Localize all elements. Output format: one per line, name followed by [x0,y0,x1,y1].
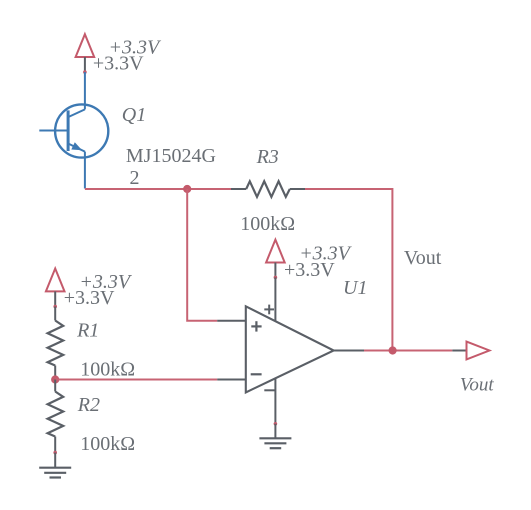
svg-text:Q1: Q1 [122,104,146,126]
wire junction to op-amp minus input [55,379,217,381]
svg-text:+3.3V: +3.3V [64,287,115,309]
wire junction to op-amp plus input [187,189,217,321]
ground GND1 below R2 [39,453,71,478]
op-amp plus input sign [251,321,261,331]
transistor Q1 [39,104,108,188]
svg-text:U1: U1 [343,277,367,299]
wire emitter to R3 [85,188,231,190]
power +3.3V VCC1 symbol [76,34,95,74]
svg-text:100kΩ: 100kΩ [240,213,295,235]
svg-text:100kΩ: 100kΩ [80,359,135,381]
op-amp V- supply sign [264,389,274,391]
ground GND2 below op-amp [259,424,291,448]
svg-text:R1: R1 [76,320,99,342]
op-amp V+ supply sign [264,305,274,315]
svg-text:R2: R2 [77,394,100,416]
node junction output [389,346,397,354]
svg-text:2: 2 [130,167,140,189]
resistor R1 [48,307,64,380]
pin dot R2 bottom [53,451,57,455]
power +3.3V VCC2 symbol (above R1) [46,269,65,309]
power +3.3V VCC3 symbol (op-amp supply) [266,240,285,280]
svg-text:Vout: Vout [404,247,442,269]
pin dot op-amp V- [274,422,278,426]
op-amp minus input sign [251,373,262,375]
resistor R2 [48,380,64,453]
node junction R1/R2/op-amp minus [51,375,59,383]
svg-text:MJ15024G: MJ15024G [126,145,216,167]
svg-text:R3: R3 [256,146,279,168]
output port Vout [452,342,489,360]
resistor R3 [231,181,305,197]
svg-text:+3.3V: +3.3V [93,53,144,75]
wire R3 to output net corner [305,189,392,351]
node junction emitter/R3/op-amp [183,185,191,193]
svg-text:+3.3V: +3.3V [284,259,335,281]
wire collector to VCC1 [84,72,86,109]
wire op-amp output to port [364,350,452,352]
svg-text:Vout: Vout [460,374,495,395]
op-amp U1 [217,277,364,423]
svg-text:100kΩ: 100kΩ [80,433,135,455]
